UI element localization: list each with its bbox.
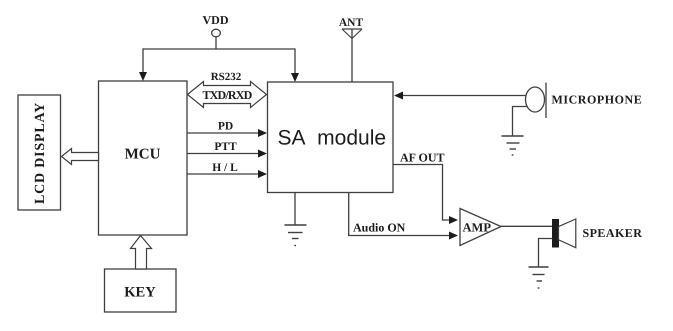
wire PD [187,132,259,134]
bus double arrow TXD/RXD [188,82,267,108]
svg-text:KEY: KEY [124,285,156,301]
svg-text:PD: PD [218,120,233,132]
op-amp AMP U2 [460,209,501,246]
hollow arrow MCU to LCD [62,149,99,165]
wire ANT to SA module [351,29,353,82]
wire Audio ON [349,193,450,236]
wire SA module to ground [294,193,296,226]
wire VDD stem [215,37,217,49]
arrowhead VDD into MCU [139,72,147,81]
wire AF OUT [393,165,450,221]
wire VDD to SA module [294,48,296,74]
ground under SA module [285,225,307,246]
arrowhead VDD into SA module [291,73,299,82]
svg-text:MICROPHONE: MICROPHONE [552,93,643,107]
arrowhead PTT into SA module [258,150,267,158]
svg-text:MCU: MCU [125,147,161,163]
arrowhead H/L into SA module [258,170,267,178]
svg-text:TXD/RXD: TXD/RXD [202,88,252,102]
wire microphone to ground [513,107,528,137]
wire VDD rail [143,48,295,50]
box MCU [99,81,188,235]
box SA module U1 [268,82,394,193]
arrowhead Audio ON into AMP [449,232,458,240]
wire AMP to speaker [501,225,553,227]
svg-text:LCD DISPLAY: LCD DISPLAY [33,102,48,204]
hollow arrow KEY to MCU [131,236,152,270]
svg-text:VDD: VDD [203,13,229,27]
box LCD DISPLAY [18,95,61,210]
antenna symbol [342,29,362,39]
svg-text:AF OUT: AF OUT [400,151,445,165]
microphone MK1 [526,83,547,119]
speaker LS1 [553,219,576,248]
arrowhead into SA module right edge [394,92,403,100]
wire speaker to ground [539,239,553,268]
svg-text:ANT: ANT [339,17,364,29]
wire PTT [187,153,259,155]
svg-text:H / L: H / L [212,162,238,174]
wire microphone to SA module [396,95,526,97]
svg-text:RS232: RS232 [211,71,242,83]
svg-text:Audio ON: Audio ON [353,221,406,235]
svg-text:PTT: PTT [214,141,237,153]
ground under speaker [529,267,549,288]
box KEY [105,269,177,312]
wire VDD to MCU [142,48,144,73]
ground under microphone [502,136,524,155]
arrowhead AF OUT into AMP [449,216,458,224]
svg-text:SPEAKER: SPEAKER [583,226,643,240]
svg-text:SA module: SA module [278,127,387,150]
svg-text:AMP: AMP [463,220,492,234]
power VDD terminal circle [212,29,221,37]
wire H/L [187,173,259,175]
arrowhead PD into SA module [258,129,267,137]
